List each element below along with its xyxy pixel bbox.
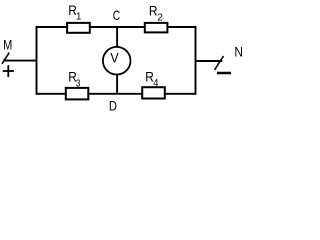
label R2: [149, 3, 163, 23]
svg-text:V: V: [110, 51, 119, 66]
polarity plus at M: [3, 65, 14, 77]
svg-text:2: 2: [157, 11, 163, 23]
terminal N slash: [215, 56, 224, 70]
voltmeter V: [103, 47, 131, 75]
wire bottom side of bridge: [36, 93, 197, 95]
label R4: [145, 69, 158, 89]
svg-text:1: 1: [76, 11, 81, 23]
polarity minus at N: [217, 72, 231, 75]
wire top side of bridge: [36, 26, 197, 28]
label R1: [68, 3, 81, 23]
resistor R4: [142, 87, 165, 98]
wire terminal M lead: [3, 60, 37, 62]
svg-text:C: C: [113, 8, 120, 23]
label R3: [68, 70, 80, 90]
svg-text:3: 3: [76, 78, 81, 90]
svg-text:4: 4: [153, 77, 158, 89]
wire left side of bridge: [36, 26, 38, 95]
wire node C to voltmeter: [116, 27, 118, 48]
terminal M slash: [2, 53, 9, 64]
wire terminal N lead: [196, 60, 223, 62]
resistor R1: [67, 23, 90, 33]
wire right side of bridge: [195, 26, 197, 95]
resistor R2: [145, 23, 168, 33]
wire voltmeter to node D: [116, 75, 118, 94]
svg-text:M: M: [3, 37, 12, 52]
svg-text:R: R: [149, 3, 158, 18]
resistor R3: [66, 88, 89, 100]
svg-text:N: N: [234, 44, 243, 59]
svg-text:D: D: [109, 99, 117, 114]
